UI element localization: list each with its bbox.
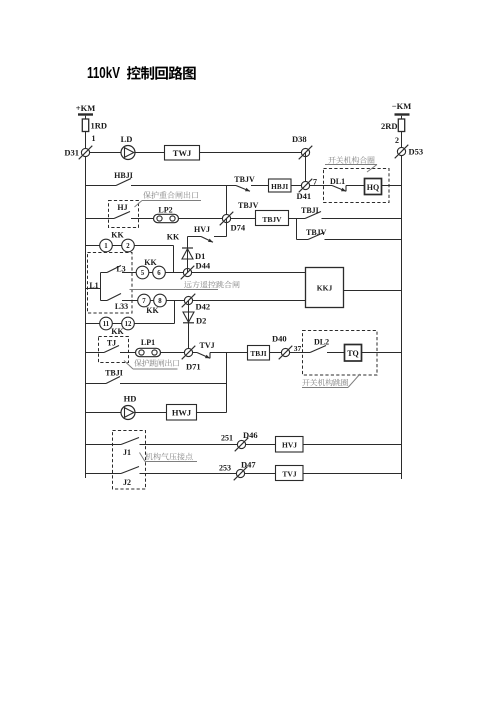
wire TBJI contact to right rail	[322, 218, 402, 220]
relay coil TWJ	[165, 146, 200, 161]
wire D38 down to D41	[305, 153, 307, 186]
relay coil KKJ	[306, 268, 344, 308]
KK contact 6	[153, 266, 166, 279]
lamp LD	[121, 146, 135, 160]
svg-text:DL1: DL1	[330, 177, 345, 186]
diode D1	[182, 248, 193, 259]
svg-text:1: 1	[92, 134, 96, 143]
wire row1 left	[86, 152, 122, 154]
wire TBJV box to TBJI contact	[289, 218, 306, 220]
node D31	[79, 146, 93, 160]
wire trip row left	[86, 352, 105, 354]
trip relay TJ dashed box	[99, 337, 129, 363]
contact TBJV row2	[236, 186, 250, 192]
KK contact 8	[154, 294, 167, 307]
contact HVJ	[201, 237, 213, 243]
node D71	[182, 346, 196, 360]
wire J1 to HVJ coil	[140, 444, 276, 446]
svg-text:D1: D1	[195, 251, 205, 261]
wire D42 down to D71	[188, 301, 190, 353]
closing coil dashed enclosure	[324, 169, 390, 203]
contact J2	[121, 467, 139, 474]
wire KK row 5-6 to KKJ	[136, 272, 306, 274]
positive bus bar	[78, 113, 93, 115]
svg-text:HJ: HJ	[117, 203, 127, 212]
node D42	[182, 294, 196, 308]
svg-text:12: 12	[125, 321, 132, 328]
wire TBJI row to junction	[120, 383, 227, 385]
svg-text:5: 5	[141, 270, 145, 277]
relay coil TBJI	[248, 346, 270, 361]
svg-text:37: 37	[294, 344, 302, 353]
svg-text:TBJI: TBJI	[250, 349, 266, 358]
svg-text:TJ: TJ	[107, 339, 116, 348]
svg-text:TBJI: TBJI	[301, 206, 319, 215]
svg-text:HVJ: HVJ	[194, 225, 210, 234]
KK contact 2	[122, 239, 135, 252]
wire TVJ to TBJI coil	[210, 352, 248, 354]
reclosing relay HJ dashed box	[109, 201, 139, 228]
control switch L1 dashed box	[88, 253, 133, 314]
svg-text:D53: D53	[409, 147, 424, 157]
svg-text:1: 1	[104, 243, 108, 250]
relay coil TBJV	[256, 211, 289, 226]
junction vertical right of TVJ	[226, 353, 228, 413]
svg-text:KK: KK	[144, 258, 157, 267]
wire TBJV contact to HBJI coil	[251, 185, 269, 187]
svg-text:HWJ: HWJ	[172, 408, 192, 418]
svg-text:L33: L33	[115, 302, 128, 311]
link LP2	[154, 214, 179, 222]
svg-text:LP1: LP1	[141, 338, 155, 347]
svg-text:D31: D31	[64, 148, 79, 158]
svg-text:D38: D38	[292, 134, 307, 144]
relay coil HVJ	[276, 437, 304, 453]
node D38	[299, 146, 313, 160]
wire HWJ row left	[86, 412, 122, 414]
node D40	[279, 346, 293, 360]
svg-text:LP2: LP2	[158, 206, 172, 215]
wire KK row 1-2	[86, 245, 174, 247]
contact TBJI lower	[106, 377, 120, 384]
svg-text:TBJV: TBJV	[234, 175, 255, 184]
contact TBJI row3	[305, 212, 321, 219]
svg-text:HQ: HQ	[367, 183, 379, 192]
wire row3 left	[86, 218, 115, 220]
junction wire 7-8 row down to 11-12 row	[174, 301, 176, 324]
contact L3	[101, 272, 108, 274]
KK contact 11	[100, 317, 113, 330]
svg-text:D40: D40	[272, 334, 287, 344]
svg-text:6: 6	[157, 270, 161, 277]
branch wire down to TBJV branch	[296, 219, 298, 240]
left rail wire	[85, 116, 87, 478]
contact L33	[101, 300, 108, 302]
contact DL1	[324, 185, 333, 187]
callout protection trip exit	[134, 359, 179, 366]
svg-text:KK: KK	[111, 327, 124, 336]
fuse 2RD	[398, 119, 404, 132]
svg-text:110kV: 110kV	[87, 65, 120, 82]
svg-text:251: 251	[221, 434, 233, 443]
wire D74 down to HVJ	[226, 219, 228, 237]
svg-text:11: 11	[103, 321, 110, 328]
svg-text:D42: D42	[196, 302, 211, 312]
closing coil HQ	[365, 179, 382, 195]
right rail wire	[401, 116, 403, 479]
wire LP1 to TVJ contact	[161, 352, 198, 354]
svg-text:2: 2	[126, 243, 130, 250]
svg-text:1RD: 1RD	[91, 121, 108, 131]
relay coil HBJI	[269, 179, 292, 192]
wire LP2 to TBJV box	[179, 218, 256, 220]
trip coil TQ	[345, 345, 362, 362]
wire HVJ to D1 and D44	[187, 237, 189, 273]
svg-text:2RD: 2RD	[381, 121, 398, 131]
svg-text:−KM: −KM	[392, 101, 411, 111]
wire TBJI row left	[86, 383, 107, 385]
callout switch mechanism trip coil	[302, 379, 348, 386]
contact TJ	[104, 346, 119, 353]
svg-text:TBJI: TBJI	[105, 369, 123, 378]
contact HJ	[114, 212, 130, 219]
svg-text:7: 7	[142, 298, 146, 305]
wire row2 left	[86, 185, 117, 187]
link LP1	[136, 348, 161, 356]
svg-text:KK: KK	[146, 306, 159, 315]
diode D2	[183, 312, 194, 323]
relay coil TVJ	[276, 466, 304, 481]
callout switch mechanism closing coil	[328, 156, 374, 163]
svg-text:J2: J2	[123, 478, 131, 487]
pressure contacts dashed box	[113, 431, 146, 490]
callout protection reclosing exit	[143, 191, 198, 198]
wire J2 to TVJ coil	[140, 473, 276, 475]
wire HJ to LP2	[131, 218, 154, 220]
wire J1 row left	[86, 444, 122, 446]
callout remote control trip close	[184, 281, 239, 288]
wire HQ to right rail	[382, 185, 402, 187]
node D53	[395, 145, 409, 159]
KK contact 7	[138, 294, 151, 307]
wire TQ to right rail	[362, 352, 402, 354]
svg-text:HBJI: HBJI	[271, 182, 288, 191]
svg-text:J1: J1	[123, 448, 131, 457]
svg-text:HBJI: HBJI	[114, 171, 133, 180]
svg-text:TVJ: TVJ	[200, 341, 215, 350]
wire HVJ row	[188, 236, 202, 238]
contact DL2	[303, 352, 311, 354]
svg-text:8: 8	[158, 298, 162, 305]
wire HBJI coil to D41	[291, 185, 324, 187]
KK contact 1	[100, 239, 113, 252]
relay coil HWJ	[167, 405, 197, 421]
wire TWJ to D38	[200, 152, 306, 154]
callout mechanism air pressure contact	[145, 453, 192, 460]
svg-text:7: 7	[313, 178, 317, 187]
node D46	[235, 438, 249, 452]
svg-text:D44: D44	[196, 261, 211, 271]
svg-text:TWJ: TWJ	[173, 148, 192, 158]
wire J2 row left	[86, 473, 122, 475]
wire KK row 7-8 to KKJ	[138, 300, 306, 302]
junction wire down to D74	[226, 186, 228, 219]
negative bus bar	[395, 113, 410, 115]
svg-text:HVJ: HVJ	[282, 441, 297, 450]
wire HD to HWJ	[135, 412, 167, 414]
svg-text:KKJ: KKJ	[317, 284, 333, 293]
lamp HD	[121, 406, 135, 420]
wire TJ to LP1	[120, 352, 136, 354]
svg-text:HD: HD	[124, 394, 137, 404]
KK contact 12	[122, 317, 135, 330]
svg-text:D47: D47	[241, 460, 256, 470]
svg-text:TBJV: TBJV	[306, 228, 327, 237]
svg-text:D71: D71	[186, 362, 201, 372]
contact TBJV branch	[297, 239, 309, 241]
trip coil dashed enclosure	[303, 331, 378, 376]
contact TVJ	[197, 353, 210, 359]
wire DL2 to TQ	[327, 352, 345, 354]
svg-text:253: 253	[219, 464, 231, 473]
svg-text:D2: D2	[196, 316, 206, 326]
svg-text:KK: KK	[111, 231, 124, 240]
svg-text:2: 2	[395, 136, 399, 145]
L1 common stub from rail	[86, 288, 101, 290]
svg-text:TQ: TQ	[347, 349, 359, 358]
junction wire down to row 5-6	[173, 246, 175, 273]
svg-text:KK: KK	[167, 233, 180, 242]
svg-text:D46: D46	[243, 430, 258, 440]
svg-text:+KM: +KM	[76, 103, 95, 113]
wire lamp to TWJ	[135, 152, 165, 154]
contact HBJI	[116, 179, 131, 186]
svg-text:LD: LD	[121, 134, 133, 144]
contact J1	[121, 438, 139, 445]
wire KKJ output to right rail	[344, 290, 402, 292]
svg-text:TBJV: TBJV	[238, 201, 259, 210]
KK contact 5	[136, 266, 149, 279]
wire TBJV branch to right rail	[325, 239, 402, 241]
fuse 1RD	[82, 119, 88, 132]
svg-text:D74: D74	[231, 223, 246, 233]
wire HWJ to junction	[197, 412, 227, 414]
wire KK row 11-12	[86, 323, 175, 325]
wire HVJ coil to right rail	[303, 444, 402, 446]
svg-text:TVJ: TVJ	[282, 470, 296, 479]
svg-text:TBJV: TBJV	[262, 215, 282, 224]
wire TVJ coil to right rail	[303, 473, 402, 475]
node D47	[234, 467, 248, 481]
node D41	[299, 179, 313, 193]
wire DL1 to HQ	[346, 185, 365, 187]
node D74	[220, 212, 234, 226]
L1 common vertical	[100, 273, 102, 301]
wire TBJI coil to D40	[270, 352, 303, 354]
svg-text:DL2: DL2	[314, 338, 329, 347]
svg-text:D41: D41	[297, 191, 312, 201]
wire HBJI contact to TBJV contact	[131, 185, 236, 187]
node D44	[181, 266, 195, 280]
